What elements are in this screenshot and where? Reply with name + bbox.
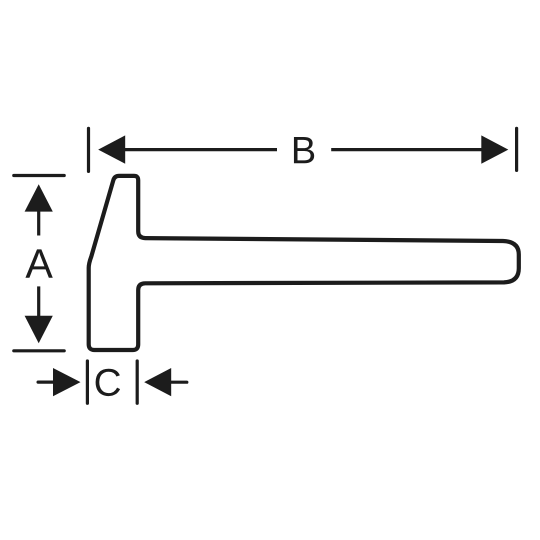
dimension C extension tick left (86, 361, 89, 403)
hammer outline (89, 176, 519, 350)
dimension A line lower segment (37, 286, 40, 317)
label B (294, 137, 314, 163)
dimension C line left (outside) (38, 381, 55, 384)
dimension A arrowhead down (25, 316, 53, 344)
dimension B arrowhead right (481, 135, 508, 163)
dimension B line right segment (331, 148, 485, 151)
dimension A arrowhead up (25, 184, 53, 211)
dimension C line right (outside) (170, 381, 187, 384)
label A (25, 249, 52, 277)
dimension A line upper segment (37, 210, 40, 236)
label C (96, 369, 120, 396)
dimension B extension tick left (87, 128, 90, 171)
dimension A extension tick top (14, 174, 64, 177)
dimension A extension tick bottom (14, 349, 64, 352)
dimension C extension tick right (136, 361, 139, 403)
dimension B extension tick right (515, 128, 518, 170)
dimension B arrowhead left (98, 135, 125, 163)
dimension C arrowhead left (pointing right) (53, 368, 81, 396)
dimension C arrowhead right (pointing left) (144, 368, 171, 396)
dimension B line left segment (121, 148, 277, 151)
